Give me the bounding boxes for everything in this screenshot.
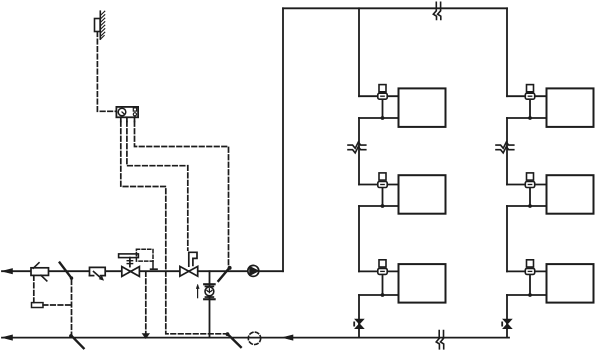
node junction R22 (528, 204, 532, 208)
valve thermostatic V22 (525, 182, 534, 188)
wire supply branch R31 (359, 270, 399, 272)
node junction R21 (381, 204, 385, 208)
wire riser column2 row1-row2 segment (506, 118, 508, 185)
node junction R12 (528, 116, 532, 120)
break symbol riser column1 (348, 142, 366, 153)
wire outdoor sensor dashed (97, 32, 116, 112)
wire return main (2, 337, 509, 339)
wire riser column1 top segment (358, 8, 360, 96)
wire sensor link dashed (71, 280, 73, 335)
wire control to return sensor dashed (121, 122, 226, 334)
outdoor sensor (95, 19, 101, 32)
wire riser column2 row2-row3 segment (506, 206, 508, 271)
valve mixing M1 (122, 267, 131, 277)
wire supply branch R32 (507, 270, 547, 272)
valve two-way V2 (180, 266, 189, 276)
wire supply riser up (282, 8, 284, 271)
wire bypass R32 (529, 274, 531, 295)
radiator R11 (399, 88, 446, 127)
wire control to supply sensor dashed (135, 122, 229, 266)
wire bypass R12 (529, 99, 531, 118)
wire supply branch R21 (359, 184, 399, 186)
wire bottom branch R11 (359, 117, 399, 119)
node junction R11 (381, 116, 385, 120)
wire control to two-way valve dashed (127, 122, 188, 251)
radiator R21 (399, 175, 446, 214)
valve shutoff column2 drop (503, 319, 511, 328)
wire mixing bypass dashed to return (145, 272, 147, 334)
wall with hatching (99, 11, 101, 39)
wire riser column1 row1-row2 segment (358, 118, 360, 185)
arrow supply flow left end (2, 269, 13, 274)
pump P1 (248, 265, 259, 276)
actuator mixing valve (119, 254, 139, 258)
wire bypass R21 (382, 188, 384, 207)
break symbol riser column2 (496, 142, 514, 153)
thermostat on supply pipe (31, 268, 49, 276)
controller terminal stubs (120, 117, 122, 121)
wire bottom branch R32 (507, 294, 547, 296)
wire supply main (2, 270, 283, 272)
actuator two-way valve (189, 252, 197, 266)
check valve (90, 267, 106, 275)
node junction R32 (528, 293, 532, 297)
wire supply branch R11 (359, 95, 399, 97)
radiator R32 (547, 264, 594, 303)
wire drop column1 to return (358, 295, 360, 338)
valve thermostatic V32 (525, 268, 534, 274)
wire top main (283, 7, 507, 9)
pump future dashed on return (248, 332, 260, 344)
radiator R22 (547, 175, 594, 214)
valve thermostatic V12 (525, 93, 534, 99)
sensor return left (69, 334, 73, 338)
valve thermostatic V31 (378, 268, 387, 274)
sensor supply right (218, 268, 229, 281)
wire supply branch R22 (507, 184, 547, 186)
arrow return flow left end (2, 335, 13, 340)
valve pressure bypass (203, 283, 216, 285)
wire bottom branch R21 (359, 205, 399, 207)
radiator R12 (547, 88, 594, 127)
wire bypass R11 (382, 99, 384, 118)
valve thermostatic V21 (378, 182, 387, 188)
wire bypass R22 (529, 188, 531, 207)
capillary bulb (32, 303, 44, 308)
break symbol return main (436, 331, 444, 349)
valve thermostatic V11 (378, 93, 387, 99)
controller U1 (116, 107, 138, 117)
radiator R31 (399, 264, 446, 303)
wire bypass R31 (382, 274, 384, 295)
sensor return right (226, 332, 230, 336)
arrow up beside bypass valve (197, 288, 199, 298)
node junction R31 (381, 293, 385, 297)
arrow return flow mid (283, 335, 294, 340)
valve shutoff column1 drop (355, 319, 363, 328)
wire supply branch R12 (507, 95, 547, 97)
wire bottom branch R31 (359, 294, 399, 296)
wire capillary dashed (33, 276, 35, 303)
node bypass arrow on return (143, 334, 149, 338)
wire bypass drop (209, 271, 211, 337)
wire bottom branch R22 (507, 205, 547, 207)
wire drop column2 to return (506, 295, 508, 338)
break symbol top main (433, 2, 441, 19)
sensor supply left (60, 263, 72, 279)
wire riser column1 row2-row3 segment (358, 206, 360, 271)
wire riser column2 top segment (506, 8, 508, 96)
pipe contact sensor foot (152, 261, 154, 269)
control box dashed at mixing valve (136, 249, 153, 261)
wire bottom branch R12 (507, 117, 547, 119)
